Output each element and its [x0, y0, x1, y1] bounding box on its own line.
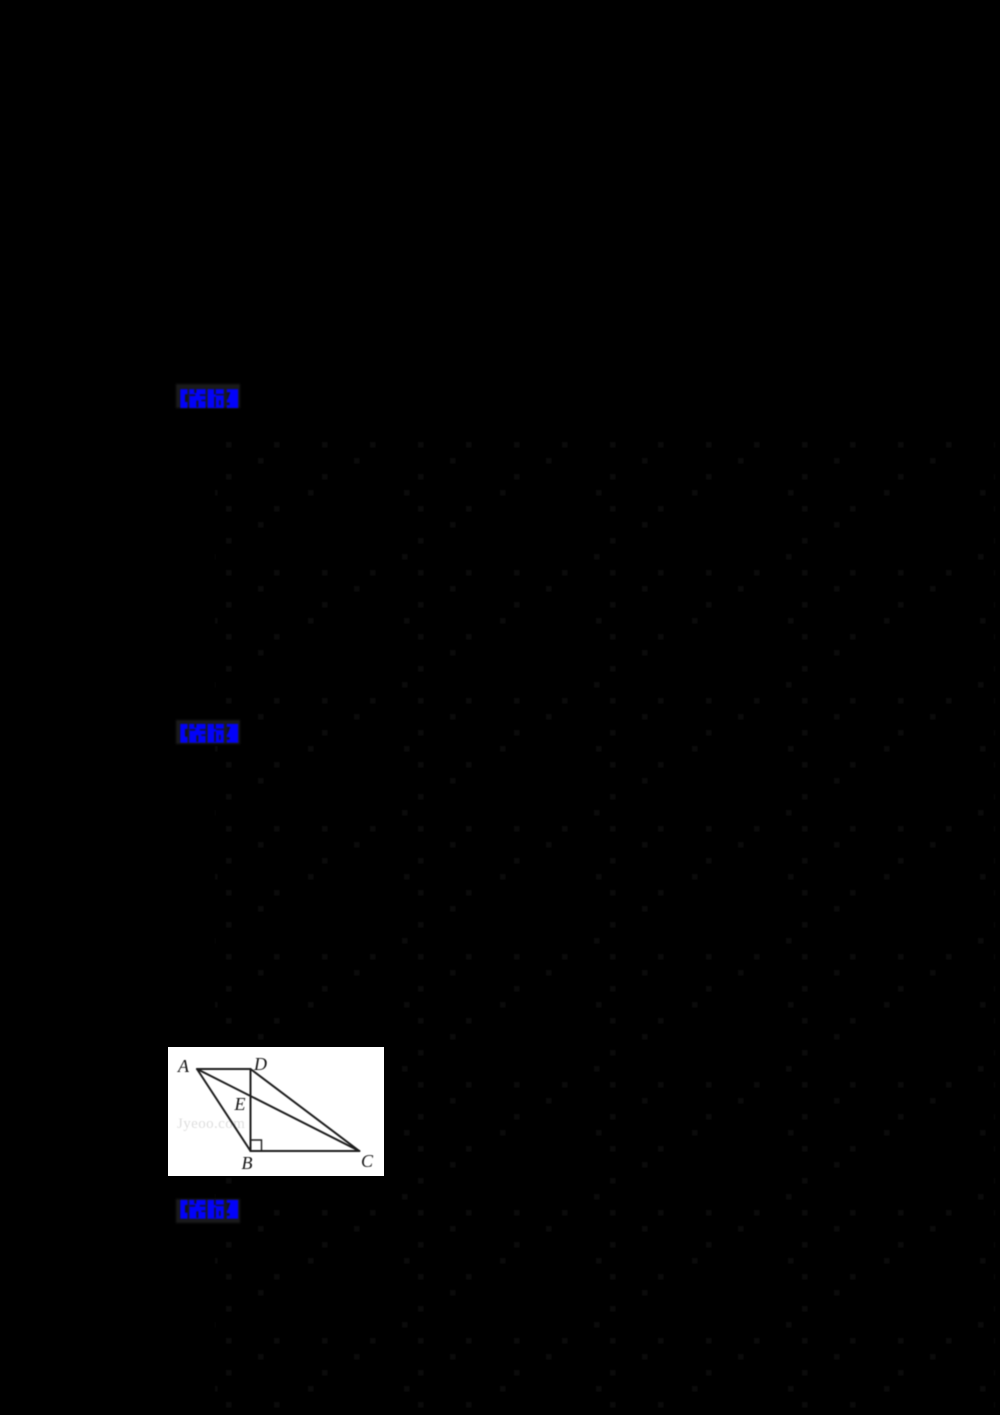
svg-text:C: C	[361, 1151, 374, 1171]
svg-text:D: D	[253, 1054, 267, 1074]
wire BC	[251, 1150, 360, 1152]
highlight label 1 (analysis)	[176, 384, 240, 408]
right angle at B	[251, 1140, 262, 1151]
svg-text:A: A	[177, 1056, 190, 1076]
svg-text:B: B	[242, 1153, 253, 1173]
wire DC	[251, 1069, 360, 1151]
highlight label 3 (comment)	[176, 1199, 240, 1223]
highlight label 2 (answer)	[176, 720, 240, 744]
wire AB	[197, 1069, 251, 1151]
wire DB	[250, 1069, 252, 1151]
svg-text:E: E	[234, 1094, 246, 1114]
wire AC	[197, 1069, 359, 1151]
geometry figure	[168, 1047, 384, 1176]
wire AD	[197, 1068, 251, 1070]
svg-text:Jyeoo.com: Jyeoo.com	[177, 1116, 245, 1132]
